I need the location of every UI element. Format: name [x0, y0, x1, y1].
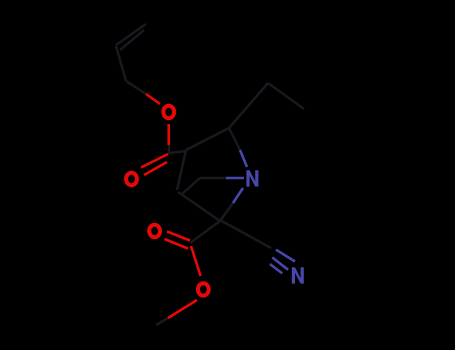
C1=O1 double bond [141, 154, 168, 168]
N nitrile glyph [292, 267, 304, 283]
N-V1 blue half [240, 150, 247, 167]
Cx-B bond [182, 178, 200, 194]
O ester2 [198, 283, 209, 295]
CH2-O dark half [126, 81, 146, 94]
O carbonyl2 [149, 225, 160, 237]
atom labels: O ester1 [163, 106, 174, 118]
O3-CH3 dark half [156, 318, 168, 325]
red oxygen bonds [141, 94, 201, 318]
bond V1-V2 [229, 83, 268, 128]
ring bond V1-N dark half [229, 128, 240, 150]
N ring glyph [246, 170, 258, 186]
ring bond Atop-B [177, 150, 186, 190]
O3-CH3 red half [168, 300, 197, 318]
C2-O3 bond [191, 246, 201, 276]
C1-Atop link [169, 145, 186, 153]
ring bond Atop-V1 [186, 128, 229, 150]
bond V2-V3 [268, 83, 304, 109]
Cx-N blue half [226, 177, 244, 180]
bond Cq-Ccn [220, 220, 271, 248]
CH2-Oe1 red half [146, 94, 160, 104]
ring bond B-Cq [178, 192, 220, 221]
C#N triple bond [276, 250, 295, 262]
Cx-N dark half [200, 177, 226, 180]
vinyl double bond CH=CH2 [116, 24, 146, 45]
Oe1-C1 bond [167, 124, 170, 145]
C2=O2 double bond [165, 239, 189, 249]
bond Cq-C2carb [190, 221, 220, 243]
carbon skeleton (very dark) [116, 24, 304, 325]
O carbonyl1 [126, 173, 137, 185]
N-Cq blue half [233, 188, 243, 203]
CH-CH2 bond [116, 46, 126, 81]
blue nitrogen bonds [226, 150, 295, 273]
ring bond N-Cq dark half [220, 203, 233, 221]
